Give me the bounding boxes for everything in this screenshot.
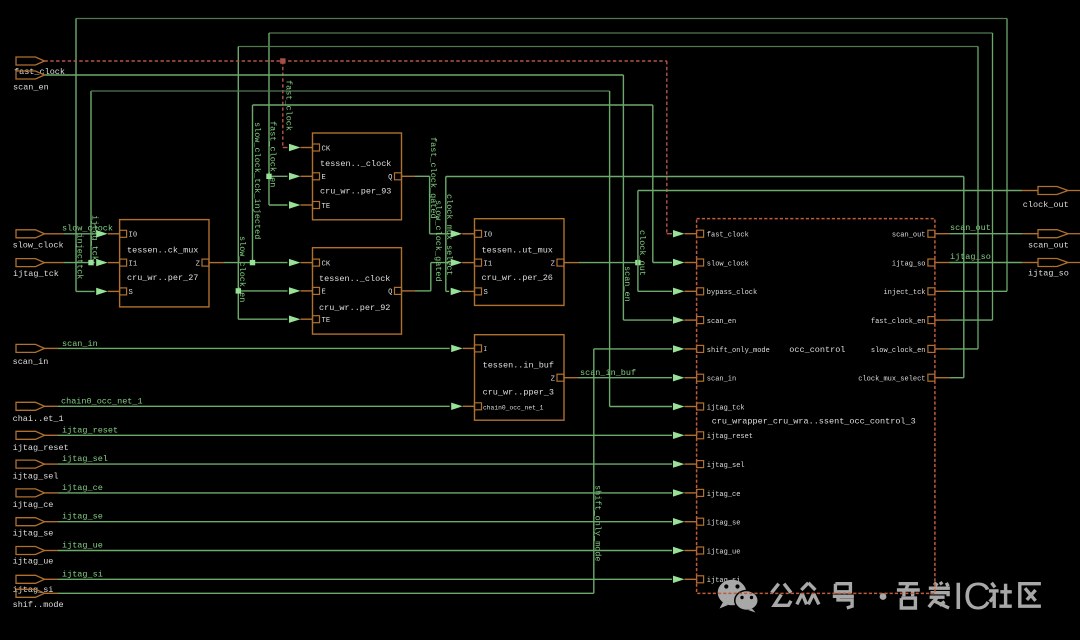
node fast_clock_en label: [268, 121, 278, 187]
node scan_out label: [950, 223, 991, 233]
port clock_out: [1023, 187, 1080, 211]
svg-text:scan_en: scan_en: [707, 318, 736, 326]
watermark letters IC: [953, 576, 991, 618]
occ_control U_occ title: [789, 345, 845, 355]
watermark char gong: [772, 584, 791, 606]
svg-text:scan_en: scan_en: [622, 266, 632, 302]
svg-text:ijtag_reset: ijtag_reset: [707, 433, 753, 441]
wire inject_tck stub from occ pin: [935, 290, 1007, 292]
buffer U3 pin chain0_occ_net_1: [475, 403, 544, 412]
clockgate U93 pin E: [313, 173, 326, 182]
port ijtag_sel: [13, 460, 59, 481]
junction fast_clock_en at E of U93: [266, 174, 271, 179]
wire fast_clock_gated: [402, 176, 450, 234]
svg-text:Q: Q: [388, 174, 392, 182]
svg-text:Q: Q: [388, 289, 392, 297]
svg-text:ijtag_sel: ijtag_sel: [13, 471, 59, 481]
port ijtag_si: [13, 575, 54, 595]
wire ijtag_tck horizontal over: [91, 90, 610, 92]
pin arrow E of U92: [289, 287, 313, 294]
node ijtag_ue label: [62, 541, 103, 551]
watermark char ai: [929, 582, 950, 608]
wire slow_clock_tck_injected vertical up: [252, 105, 254, 263]
wire ijtag_ue: [45, 550, 673, 552]
wire clock_out branch to bypass_clock: [638, 263, 672, 292]
wire ijtag_ce: [45, 492, 673, 494]
pin arrow occ ijtag_sel: [673, 460, 697, 467]
wire slow_clock_en stub from occ pin: [935, 348, 978, 350]
svg-text:slow_clock: slow_clock: [13, 241, 64, 251]
mux U26 pin S: [475, 288, 488, 297]
svg-text:clock_out: clock_out: [1023, 200, 1069, 210]
watermark wechat icon: [718, 580, 759, 613]
node ijtag_so label: [950, 252, 991, 262]
svg-text:chain0_occ_net_1: chain0_occ_net_1: [483, 405, 544, 412]
svg-text:fast_clock: fast_clock: [707, 232, 749, 240]
svg-text:ijtag_tck: ijtag_tck: [90, 215, 100, 261]
watermark char wu: [897, 584, 920, 608]
wire ijtag_se: [45, 521, 673, 523]
clockgate U92 body: [313, 248, 402, 334]
wire fast_clock dashed branch vertical to U93 CK: [283, 61, 288, 148]
port chain0_occ_net_1: [13, 402, 64, 424]
pin arrow occ bypass_clock: [673, 288, 697, 295]
junction slow_clock_tck_injected: [250, 260, 255, 265]
svg-text:S: S: [484, 289, 488, 297]
svg-text:I0: I0: [484, 232, 493, 240]
mux U27 name: [127, 273, 198, 283]
wire inject_tck into S of U27: [76, 290, 95, 292]
svg-text:ijtag_so: ijtag_so: [950, 252, 991, 262]
node ijtag_sel label: [62, 454, 108, 464]
svg-text:scan_in_buf: scan_in_buf: [580, 368, 636, 378]
wire slow_clock_en horizontal top: [238, 46, 978, 48]
wire slow_clock: [45, 233, 95, 235]
pin arrow occ fast_clock: [673, 230, 697, 237]
pin arrow CK of U93: [289, 144, 313, 151]
port slow_clock: [13, 230, 64, 251]
mux U27 pin Z: [196, 259, 209, 268]
node ijtag_reset label: [62, 425, 118, 435]
pin arrow E of U93: [289, 173, 313, 180]
node slow_clock_gated label: [433, 200, 443, 282]
pin arrow CK of U92: [289, 259, 313, 266]
pin arrow occ ijtag_tck: [673, 403, 697, 410]
wire slow_clock_en vertical left: [237, 47, 239, 320]
junction slow_clock_en at E of U92: [236, 288, 241, 293]
node scan_en vertical label: [622, 266, 632, 302]
node scan_in label: [62, 339, 98, 349]
port scan_in: [13, 344, 49, 367]
wire ijtag_si: [45, 578, 673, 580]
svg-text:I1: I1: [129, 260, 138, 268]
node chain0_occ_net_1 label: [61, 397, 143, 407]
pin arrow I1 of U26: [451, 259, 475, 266]
occ_control U_occ left pins: [697, 230, 770, 585]
wire ijtag_so: [935, 262, 1038, 264]
svg-text:ijtag_ue: ijtag_ue: [13, 557, 54, 567]
svg-text:S: S: [129, 289, 133, 297]
wire scan_out: [935, 233, 1038, 235]
clockgate U92 name: [319, 303, 390, 313]
svg-text:cru_wr..per_27: cru_wr..per_27: [127, 273, 198, 283]
watermark char she: [989, 583, 1012, 608]
wire fast_clock_en to TE of U93: [269, 204, 288, 206]
port shift_only_mode: [13, 589, 64, 610]
wire shift_only_mode horizontal: [45, 592, 594, 594]
svg-text:I: I: [484, 346, 488, 353]
occ_control U_occ right pins: [858, 230, 935, 383]
pin arrow I0 of U26: [451, 230, 475, 237]
mux U27 pin S: [120, 288, 133, 297]
svg-text:slow_clock: slow_clock: [62, 224, 113, 234]
pin arrow S of U26: [451, 288, 475, 295]
svg-text:ijtag_ue: ijtag_ue: [62, 541, 103, 551]
occ_control U_occ name: [712, 416, 916, 426]
svg-text:scan_in: scan_in: [13, 357, 49, 367]
buffer U3 pin Z: [551, 374, 564, 383]
svg-text:TE: TE: [322, 203, 331, 211]
clockgate U93 body: [313, 133, 402, 220]
wire clock_mux_select vertical left: [446, 177, 449, 292]
clockgate U92 pin Q: [388, 287, 401, 296]
svg-text:Z: Z: [551, 376, 556, 384]
clockgate U93 pin Q: [388, 173, 401, 182]
svg-text:ijtag_se: ijtag_se: [13, 529, 54, 539]
svg-text:ijtag_sel: ijtag_sel: [707, 462, 745, 470]
pin arrow occ ijtag_si: [673, 576, 697, 583]
svg-text:tessen.._clock: tessen.._clock: [320, 159, 391, 169]
svg-text:ijtag_tck: ijtag_tck: [13, 269, 59, 279]
svg-text:injecttck: injecttck: [75, 234, 85, 280]
pin arrow TE of U93: [289, 201, 313, 208]
wire slow_clock_tck_injected down to occ slow_clock: [653, 105, 672, 263]
svg-text:fast_clock: fast_clock: [14, 67, 65, 77]
wire chain0_occ_net_1: [45, 405, 450, 407]
watermark char zhong: [797, 583, 819, 605]
node clock_mux_select label: [444, 194, 454, 276]
pin arrow occ ijtag_ue: [673, 547, 697, 554]
mux U27 pin I1: [120, 259, 138, 268]
port ijtag_se: [13, 518, 54, 539]
svg-text:ijtag_so: ijtag_so: [1028, 269, 1069, 279]
svg-text:ijtag_si: ijtag_si: [62, 569, 103, 579]
svg-text:slow_clock_tck_injected: slow_clock_tck_injected: [252, 122, 262, 239]
clockgate U92 pin CK: [313, 259, 331, 268]
wire fast_clock_en vertical right: [992, 33, 994, 320]
port scan_out: [1028, 230, 1080, 251]
wire fast_clock dashed vertical to occ: [667, 61, 672, 234]
wire slow_clock_tck_injected horizontal: [253, 104, 653, 106]
wire fast_clock_en vertical left: [268, 33, 270, 205]
mux U27 body: [120, 220, 209, 307]
pin arrow TE of U92: [289, 316, 313, 323]
mux U26 title: [482, 246, 553, 256]
svg-text:fast_clock_en: fast_clock_en: [268, 121, 278, 187]
svg-text:slow_clock_gated: slow_clock_gated: [433, 200, 443, 282]
wire ijtag_tck vertical up: [90, 91, 92, 263]
wire clock_out vertical up: [637, 191, 639, 263]
svg-text:ijtag_ue: ijtag_ue: [707, 548, 741, 556]
mux U26 name: [482, 273, 553, 283]
wire inject_tck vertical left: [75, 19, 77, 292]
port fast_clock: [14, 57, 65, 77]
wire clock_mux_select vertical right: [963, 177, 965, 378]
svg-text:scan_in: scan_in: [62, 339, 98, 349]
pin arrow I0 of U27: [96, 230, 120, 237]
pin arrow S of U27: [96, 288, 120, 295]
wire slow_clock_en vertical right: [977, 47, 979, 349]
svg-text:shift_only_mode: shift_only_mode: [707, 347, 770, 355]
wire fast_clock_en stub from occ pin: [935, 319, 993, 321]
pin arrow chain0 pin of U3: [451, 403, 475, 410]
clockgate U93 title: [320, 159, 391, 169]
svg-text:occ_control: occ_control: [789, 345, 845, 355]
svg-text:tessen..ut_mux: tessen..ut_mux: [482, 246, 553, 256]
svg-text:E: E: [322, 174, 326, 182]
pin arrow occ ijtag_se: [673, 518, 697, 525]
occ_control U_occ selected dashed border: [697, 219, 935, 594]
svg-text:ijtag_sel: ijtag_sel: [62, 454, 108, 464]
pin arrow I of U3: [451, 345, 475, 352]
svg-text:I0: I0: [129, 232, 138, 240]
junction fast_clock branch: [280, 58, 285, 63]
node slow_clock label: [62, 224, 113, 234]
svg-text:tessen.._clock: tessen.._clock: [319, 274, 390, 284]
svg-text:clock_out: clock_out: [637, 230, 647, 276]
svg-text:inject_tck: inject_tck: [883, 289, 925, 297]
wire scan_en horizontal: [45, 74, 624, 76]
mux U26 pin I0: [475, 230, 493, 239]
wire fast_clock_en to E of U93: [269, 175, 288, 177]
wire slow_clock_tck_injected Z to CK: [209, 262, 288, 264]
node ijtag_se label: [62, 512, 103, 522]
wire clock_mux_select stub from occ: [935, 377, 964, 379]
mux U27 title: [127, 246, 198, 256]
wire shift_only_mode vertical: [594, 349, 672, 593]
svg-text:chai..et_1: chai..et_1: [13, 414, 64, 424]
wire clock_out from Z: [564, 262, 638, 264]
wire slow_clock_en to TE of U92: [238, 318, 287, 320]
clockgate U93 pin CK: [313, 144, 331, 153]
svg-text:tessen..in_buf: tessen..in_buf: [483, 361, 554, 371]
svg-text:Z: Z: [196, 260, 201, 268]
svg-text:cru_wr..pper_3: cru_wr..pper_3: [483, 388, 554, 398]
svg-text:slow_clock_en: slow_clock_en: [871, 347, 926, 355]
svg-text:shif..mode: shif..mode: [13, 600, 64, 610]
buffer U3 title: [483, 361, 554, 371]
port scan_en: [13, 71, 49, 93]
svg-text:scan_in: scan_in: [707, 376, 736, 384]
node inject_tck label: [75, 234, 85, 280]
clockgate U92 title: [319, 274, 390, 284]
pin arrow occ ijtag_ce: [673, 489, 697, 496]
pin arrow I1 of U27: [96, 259, 120, 266]
node clock_out label: [637, 230, 647, 276]
node slow_clock_tck_injected label: [252, 122, 262, 239]
wire ijtag_sel: [45, 463, 673, 465]
svg-text:ijtag_so: ijtag_so: [892, 260, 926, 268]
junction clock_out: [635, 260, 640, 265]
svg-text:ijtag_ce: ijtag_ce: [707, 491, 741, 499]
pin arrow occ scan_in: [673, 374, 697, 381]
watermark char hao: [833, 584, 854, 608]
svg-text:ijtag_se: ijtag_se: [62, 512, 103, 522]
svg-text:scan_en: scan_en: [13, 83, 49, 93]
svg-text:chain0_occ_net_1: chain0_occ_net_1: [61, 397, 143, 407]
node shift_only_mode label: [593, 485, 603, 562]
svg-text:tessen..ck_mux: tessen..ck_mux: [127, 246, 198, 256]
svg-text:cru_wr..per_26: cru_wr..per_26: [482, 273, 553, 283]
node slow_clock_en label: [237, 236, 247, 302]
mux U27 pin I0: [120, 230, 138, 239]
mux U26 pin I1: [475, 259, 493, 268]
wire ijtag_tck from port: [64, 262, 95, 264]
svg-text:cru_wrapper_cru_wra..ssent_occ: cru_wrapper_cru_wra..ssent_occ_control_3: [712, 416, 916, 426]
wire clock_mux_select horizontal: [446, 176, 964, 178]
svg-text:E: E: [322, 289, 326, 297]
port ijtag_so: [1028, 259, 1080, 279]
wire inject_tck horizontal top: [76, 18, 1007, 20]
svg-text:IC: IC: [953, 576, 991, 618]
node fast_clock_gated label: [428, 137, 438, 219]
buffer U3 name: [483, 388, 554, 398]
svg-text:slow_clock_en: slow_clock_en: [237, 236, 247, 302]
svg-text:I1: I1: [484, 260, 493, 268]
clockgate U93 pin TE: [313, 202, 331, 211]
svg-text:clock_mux_select: clock_mux_select: [858, 376, 925, 384]
watermark middle dot: [880, 593, 887, 600]
buffer U3 body: [475, 335, 565, 421]
svg-text:scan_out: scan_out: [892, 232, 926, 240]
node ijtag_tck vertical label: [90, 215, 100, 261]
wire scan_in_buf: [564, 377, 673, 379]
svg-text:Z: Z: [551, 260, 556, 268]
svg-text:cru_wr..per_92: cru_wr..per_92: [319, 303, 390, 313]
node ijtag_ce label: [62, 483, 103, 493]
pin arrow occ shift_only_mode: [673, 345, 697, 352]
wire ijtag_tck vertical down to occ: [610, 91, 672, 407]
junction ijtag_tck at port wire: [88, 260, 93, 265]
mux U26 pin Z: [551, 259, 564, 268]
port ijtag_reset: [13, 431, 69, 453]
clockgate U93 name: [320, 187, 391, 197]
pin arrow occ ijtag_reset: [673, 432, 697, 439]
svg-text:bypass_clock: bypass_clock: [707, 289, 757, 297]
pin arrow occ slow_clock: [673, 259, 697, 266]
svg-text:CK: CK: [322, 260, 331, 268]
port ijtag_ue: [13, 547, 54, 567]
clockgate U92 pin E: [313, 287, 326, 296]
svg-text:ijtag_reset: ijtag_reset: [62, 425, 118, 435]
clockgate U92 pin TE: [313, 316, 331, 325]
svg-text:ijtag_se: ijtag_se: [707, 520, 741, 528]
wire slow_clock_en to E of U92: [238, 290, 287, 292]
svg-text:ijtag_reset: ijtag_reset: [13, 443, 69, 453]
svg-text:CK: CK: [322, 145, 331, 153]
svg-text:cru_wr..per_93: cru_wr..per_93: [320, 187, 391, 197]
svg-text:scan_out: scan_out: [1028, 241, 1069, 251]
buffer U3 pin I: [475, 345, 488, 353]
port ijtag_ce: [13, 489, 54, 510]
port ijtag_tck: [13, 259, 64, 279]
svg-text:TE: TE: [322, 317, 331, 325]
svg-text:fast_clock_en: fast_clock_en: [871, 318, 926, 326]
svg-text:ijtag_ce: ijtag_ce: [62, 483, 103, 493]
node scan_in_buf label: [580, 368, 636, 378]
mux U26 body: [475, 219, 565, 306]
svg-text:slow_clock: slow_clock: [707, 260, 749, 268]
wire fast_clock dashed horizontal: [45, 60, 667, 62]
svg-text:scan_out: scan_out: [950, 223, 991, 233]
node fast_clock vertical label: [284, 80, 294, 131]
wire fast_clock_en horizontal top: [269, 32, 993, 34]
pin arrow occ scan_en: [673, 316, 697, 323]
wire slow_clock_gated: [402, 263, 450, 291]
node ijtag_si label: [62, 569, 103, 579]
svg-text:ijtag_tck: ijtag_tck: [707, 404, 745, 412]
wire ijtag_reset: [45, 434, 673, 436]
wire inject_tck vertical right: [1006, 19, 1008, 292]
wire scan_in: [45, 347, 450, 349]
watermark char qu: [1020, 584, 1041, 607]
wire scan_en vertical: [623, 75, 672, 320]
wire clock_out horizontal to port: [638, 190, 1038, 192]
svg-text:ijtag_ce: ijtag_ce: [13, 500, 54, 510]
